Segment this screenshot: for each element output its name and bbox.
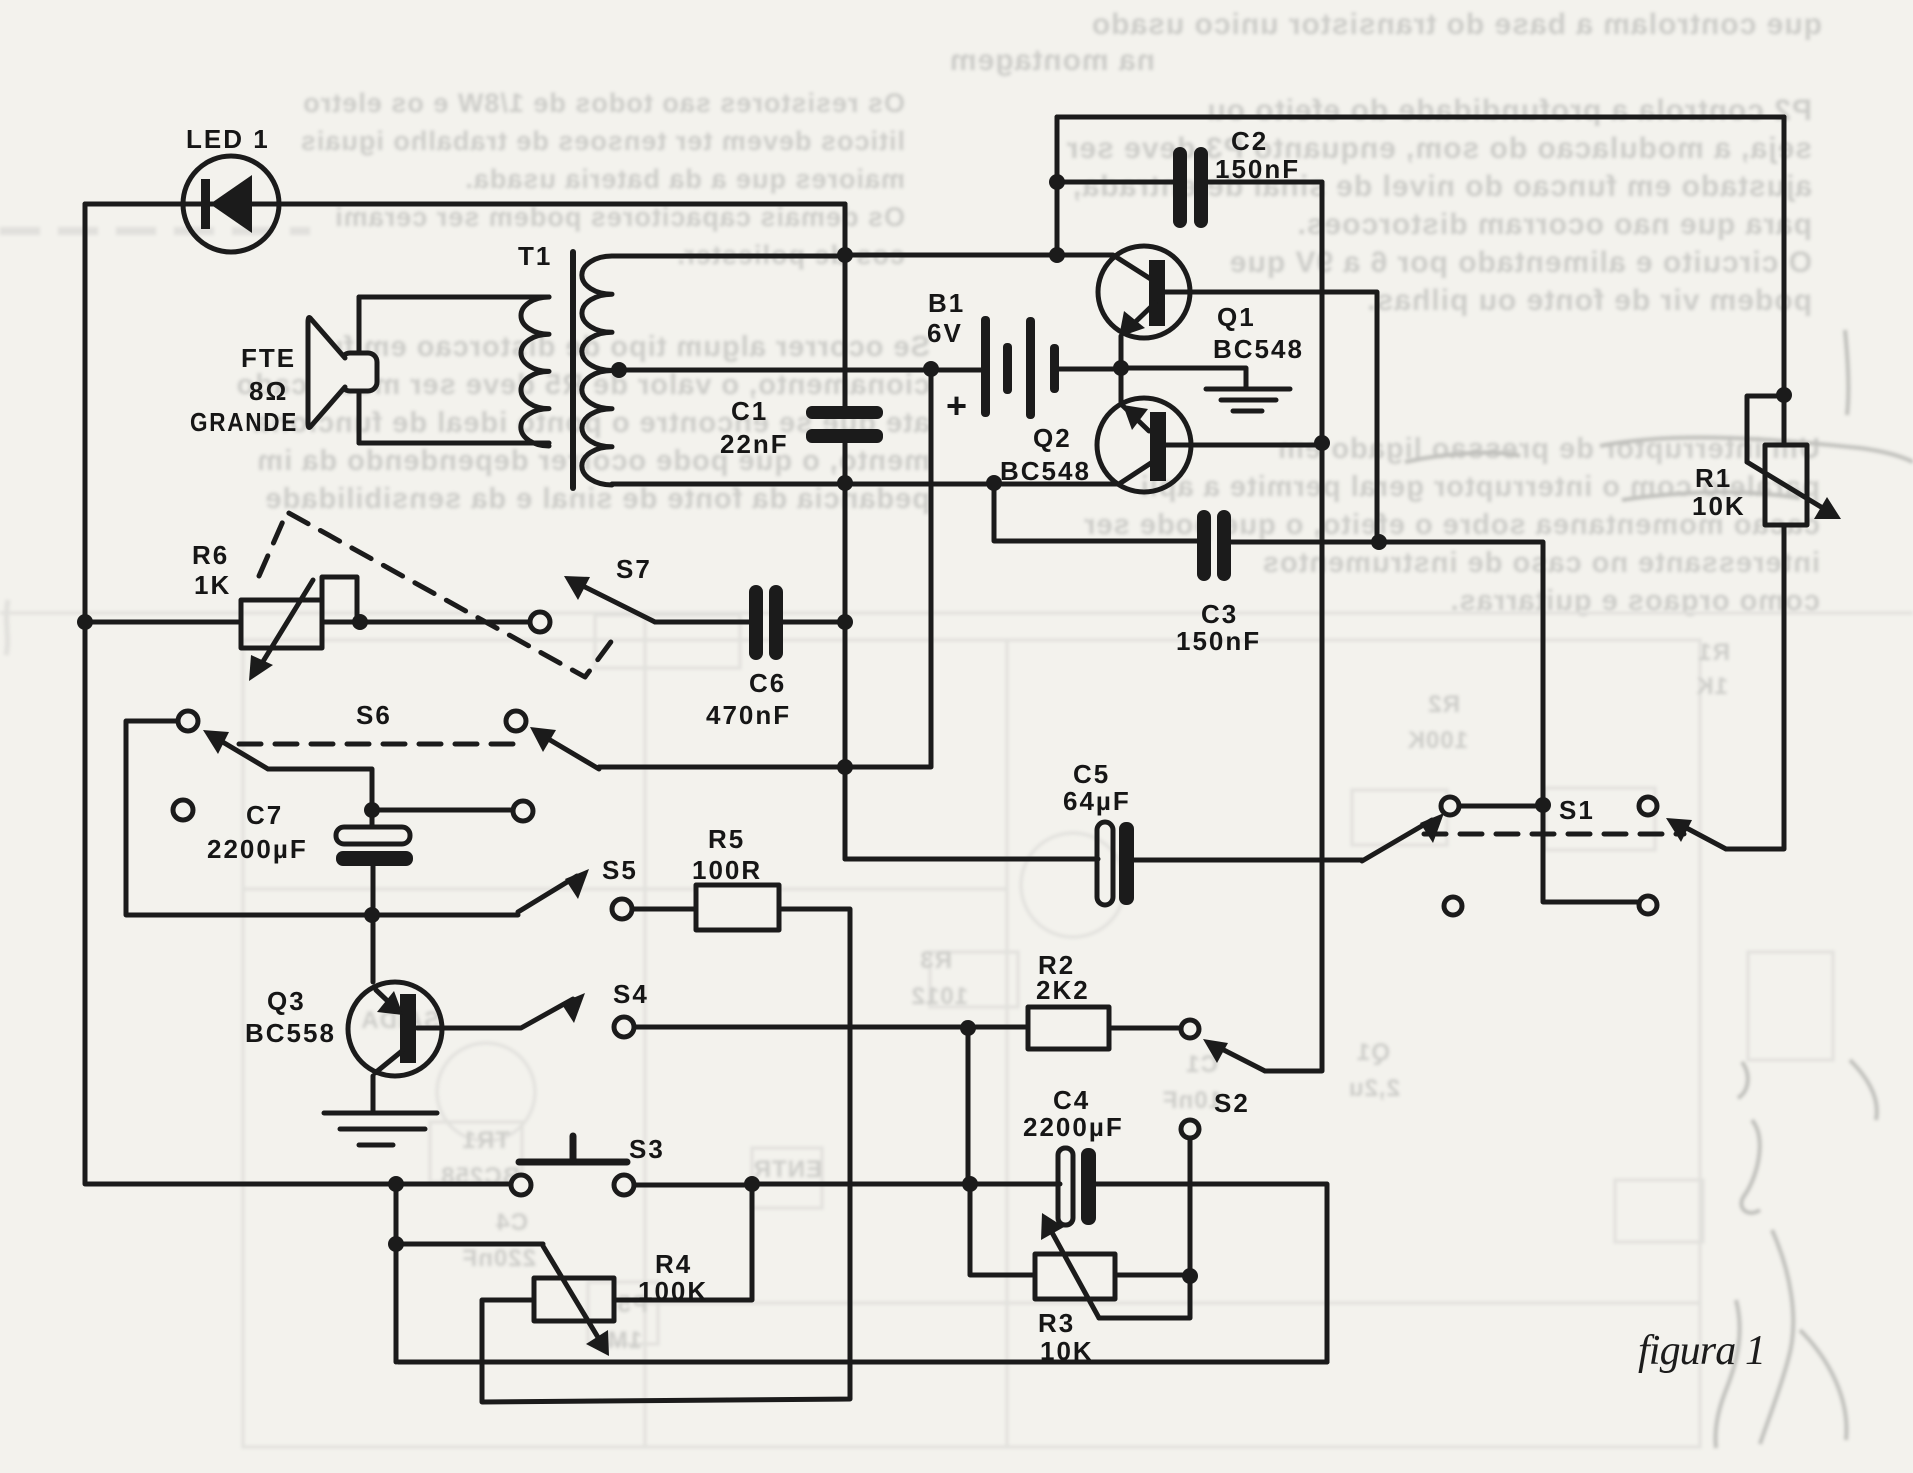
transistor Q1 base bar <box>1149 260 1165 326</box>
capacitor C3 plate B <box>1217 510 1231 581</box>
svg-text:BC548: BC548 <box>1000 456 1091 486</box>
svg-text:8Ω: 8Ω <box>249 376 288 406</box>
contact S6 right <box>506 711 526 731</box>
arrowhead R3 wiper <box>1041 1213 1064 1240</box>
svg-text:S7: S7 <box>616 554 652 584</box>
svg-text:ENTR: ENTR <box>753 1156 822 1183</box>
potentiometer R6 body <box>241 600 322 648</box>
svg-text:figura 1: figura 1 <box>1638 1328 1766 1374</box>
wire: R4 wiper row <box>396 1242 543 1247</box>
wire: right vertical to R1 <box>1782 117 1787 395</box>
arrowhead R1 wiper <box>1814 497 1841 519</box>
dashed coupling S6 <box>239 742 518 747</box>
wire: transformer secondary bottom lead / Q2 collector row <box>612 463 1151 484</box>
contact S2 bottom <box>1181 1120 1199 1138</box>
potentiometer R4 body <box>534 1278 614 1321</box>
wire: R1 bottom lead to S1 arm <box>1726 525 1784 849</box>
wire: C3 branch down <box>994 484 1197 541</box>
node C2 left <box>1049 174 1065 190</box>
svg-text:10nF: 10nF <box>1162 1087 1222 1114</box>
dashed coupling S7-R6 <box>259 512 613 677</box>
node battery left <box>923 361 939 377</box>
wire: S5 arm <box>518 876 577 912</box>
wire: R5 right lead down <box>482 909 850 1402</box>
node S3 left branch <box>388 1176 404 1192</box>
svg-text:10K: 10K <box>1692 491 1746 521</box>
wire: Q2 base lead <box>1166 443 1322 448</box>
svg-text:C7: C7 <box>246 800 283 830</box>
contact S5 <box>612 899 632 919</box>
transistor Q3 base bar <box>400 994 416 1063</box>
svg-text:1K: 1K <box>194 570 231 600</box>
svg-text:470nF: 470nF <box>706 700 791 730</box>
transistor Q1 circle <box>1098 246 1190 338</box>
potentiometer R1 body <box>1765 445 1807 525</box>
capacitor C6 plate A <box>749 585 763 660</box>
transistor Q3 collector lead <box>371 1076 376 1113</box>
svg-text:S2: S2 <box>1214 1088 1250 1118</box>
node Q1/Q2 emitters <box>1113 360 1129 376</box>
pushbutton S3 bar <box>519 1159 627 1166</box>
capacitor C4 plate solid <box>1081 1148 1096 1225</box>
contact S4 <box>614 1017 634 1037</box>
svg-text:que controlam a base do transi: que controlam a base do transistor unico… <box>1091 8 1822 41</box>
contact S1 lower-right <box>1639 896 1657 914</box>
svg-text:220nF: 220nF <box>462 1245 536 1272</box>
arrowhead Q1 emitter <box>1119 311 1145 337</box>
pushbutton S3 plunger <box>570 1136 577 1160</box>
wire: S5 contact to R5 <box>632 907 696 912</box>
resistor R2 body <box>1028 1007 1109 1049</box>
wire: transformer secondary top lead <box>612 254 845 259</box>
wire: node to Q1 collector <box>845 255 1157 283</box>
wire: C5 to S1 arm elbow <box>1133 858 1362 863</box>
node x845 C6 <box>837 614 853 630</box>
transistor Q3 circle <box>348 982 442 1076</box>
svg-text:LED 1: LED 1 <box>186 124 270 154</box>
contact S2 top <box>1181 1020 1199 1038</box>
resistor R5 body <box>696 885 779 930</box>
arrowhead S6 right arm <box>530 727 556 752</box>
svg-text:B1: B1 <box>928 288 965 318</box>
wire: central vertical x=845 upper <box>843 204 848 406</box>
ghost paragraph right-middle <box>1083 433 1820 617</box>
wire: S7 arm <box>577 583 655 622</box>
svg-text:Q3: Q3 <box>267 986 306 1016</box>
svg-text:R4: R4 <box>655 1249 692 1279</box>
wire: R3 right lead <box>1115 1273 1190 1278</box>
svg-text:pedancia da fonte de sinal e d: pedancia da fonte de sinal e da sensibil… <box>265 483 930 515</box>
svg-text:6V: 6V <box>927 318 963 348</box>
svg-text:FTE: FTE <box>241 343 296 373</box>
wire: S1 left arm <box>1362 820 1432 861</box>
capacitor C2 plate B <box>1194 147 1208 228</box>
capacitor C7 plate outline <box>336 827 410 844</box>
capacitor C5 plate outline <box>1097 822 1113 905</box>
wire: R2 branch down to R3 <box>966 1028 971 1184</box>
svg-text:2,2u: 2,2u <box>1348 1075 1400 1102</box>
wire: top-left LED row <box>85 202 845 207</box>
contact S1 lower-left <box>1444 897 1462 915</box>
speaker top lead <box>359 295 549 300</box>
ghost schematic lines (bleed-through of figure on reverse page) <box>0 613 1913 1447</box>
speaker cone <box>308 318 345 428</box>
arrowhead Q3 emitter <box>377 991 403 1015</box>
svg-text:T1: T1 <box>518 241 552 271</box>
dashed coupling S1 <box>1424 832 1684 837</box>
battery B1 plate short2 <box>1050 344 1059 393</box>
wire: S2 arm <box>1216 1046 1265 1071</box>
svg-text:maiores que a da bateria usada: maiores que a da bateria usada. <box>464 164 905 194</box>
capacitor C4 plate outline <box>1058 1148 1073 1225</box>
wire: R6 wiper arrow <box>259 580 313 668</box>
svg-text:S4: S4 <box>613 979 649 1009</box>
transistor Q2 circle <box>1097 398 1191 492</box>
node transformer tap <box>611 362 627 378</box>
svg-text:1M: 1M <box>607 1327 642 1354</box>
wire: S1 pole wire <box>1459 804 1543 809</box>
svg-text:podem vir de fonte ou pilhas.: podem vir de fonte ou pilhas. <box>1366 284 1812 317</box>
battery B1 plate long <box>981 316 990 417</box>
svg-text:100R: 100R <box>692 855 762 885</box>
svg-text:TR1: TR1 <box>462 1127 510 1154</box>
svg-text:150nF: 150nF <box>1215 154 1300 184</box>
svg-text:150nF: 150nF <box>1176 626 1261 656</box>
svg-text:100K: 100K <box>1407 727 1468 754</box>
pencil scribbles bottom right <box>1405 330 1913 1448</box>
contact S6 stub <box>513 801 533 821</box>
svg-text:R1: R1 <box>1695 463 1732 493</box>
node Q2 base / C2 column <box>1314 435 1330 451</box>
svg-text:P2 controla a profundidade do: P2 controla a profundidade do efeito ou <box>1206 94 1812 127</box>
svg-text:2200µF: 2200µF <box>207 834 308 864</box>
capacitor C6 plate B <box>769 585 783 660</box>
svg-text:R1: R1 <box>1697 639 1730 666</box>
wire: left vertical rail <box>83 204 88 1184</box>
node C3 branch <box>986 475 1002 491</box>
battery B1 plate long2 <box>1026 317 1035 419</box>
arrowhead S7 arm <box>564 576 590 600</box>
svg-text:C6: C6 <box>749 668 786 698</box>
wire: bottom bus <box>398 1360 1327 1365</box>
svg-text:na montagem: na montagem <box>949 44 1155 77</box>
arrowhead S6 left arm <box>203 730 229 754</box>
wire: S6 left arm elbow across <box>268 769 372 810</box>
svg-text:Se ocorrer algum tipo de disto: Se ocorrer algum tipo de distorcao em fu… <box>306 331 930 363</box>
contact S1 upper-left <box>1441 797 1459 815</box>
arrowhead R6 wiper <box>249 655 273 681</box>
arrowhead S4 arm <box>561 993 585 1023</box>
node x845/sec-top <box>837 247 853 263</box>
wire: S4 contact to R2 <box>634 1025 1028 1030</box>
wire: bottom-left row to S3 <box>86 1182 511 1187</box>
wire: long right vertical C2 to S2 arm <box>1265 182 1322 1071</box>
node dots <box>77 174 1792 1284</box>
wire: C4 right lead to bottom corner <box>1094 1184 1327 1362</box>
wire: S2 lower contact down <box>1099 1139 1190 1318</box>
wire: R6 row left <box>85 620 241 625</box>
ground near Q3 bar3 <box>359 1143 393 1148</box>
svg-text:liticos devem ter tensoes de t: liticos devem ter tensoes de trabalho ig… <box>300 126 905 156</box>
ghost text top-right (bleed-through, mirrored) <box>949 8 1822 77</box>
wire: R4 wiper arrow <box>543 1246 602 1344</box>
wire: battery row right <box>1058 367 1121 372</box>
wire: R1 wiper arrow <box>1747 462 1826 510</box>
capacitor C7 plate solid <box>336 851 413 866</box>
capacitor C1 plate A <box>806 406 883 419</box>
wire: S1 right arm <box>1679 824 1726 849</box>
svg-text:22nF: 22nF <box>720 429 789 459</box>
svg-text:R3: R3 <box>919 947 952 974</box>
transistor Q3 collector <box>375 1051 402 1073</box>
wire: S6 right arm <box>545 737 599 769</box>
wire: R6 wiper bump <box>322 577 357 622</box>
potentiometer R3 body <box>1035 1254 1115 1299</box>
LED1 circle <box>183 156 279 252</box>
transistor Q1 emitter lead <box>1119 336 1124 368</box>
svg-text:S3: S3 <box>629 1134 665 1164</box>
ground near Q1 bar3 <box>1233 409 1262 414</box>
transistor Q2 base bar <box>1150 412 1166 481</box>
svg-text:Q2: Q2 <box>1033 423 1072 453</box>
svg-text:Q1: Q1 <box>1217 302 1256 332</box>
node Q1 base / C3 row <box>1371 534 1387 550</box>
ghost labels of reverse figure (mirrored) <box>360 639 1730 1354</box>
capacitor C3 plate A <box>1197 510 1211 581</box>
transistor Q3 emitter <box>376 990 395 1008</box>
wire: to Q1 ground <box>1121 368 1246 389</box>
wire: R1 wiper jog <box>1747 396 1784 462</box>
wire: Q2 emitter lead <box>1121 368 1149 431</box>
svg-text:1012: 1012 <box>911 983 968 1010</box>
wire: S6 left contact to down-rail <box>126 721 518 915</box>
ghost band near left edge <box>0 231 310 655</box>
wire: R3 wiper arrow <box>1049 1227 1099 1318</box>
wire: R4 right lead up to S3 node <box>614 1184 752 1300</box>
svg-text:BC558: BC558 <box>245 1018 336 1048</box>
svg-text:Os resistores sao todos de 1/8: Os resistores sao todos de 1/8W e os ele… <box>302 88 905 118</box>
contact S1 upper-right <box>1639 797 1657 815</box>
svg-text:C1: C1 <box>731 396 768 426</box>
wire: C6 to x=845 <box>783 620 845 625</box>
svg-text:para que nao ocorram distorcoe: para que nao ocorram distorcoes. <box>1297 208 1812 241</box>
wire: S6 left arm <box>216 738 268 769</box>
svg-text:R5: R5 <box>708 824 745 854</box>
node R3 right / S2 <box>1182 1268 1198 1284</box>
svg-text:R6: R6 <box>192 540 229 570</box>
wire: top supply bus <box>1057 115 1784 120</box>
ground near Q3 bar1 <box>324 1111 437 1116</box>
node C7 top <box>364 802 380 818</box>
wire: R3 left lead <box>970 1184 1035 1275</box>
arrowhead S5 arm <box>565 869 589 899</box>
svg-text:O circuito e alimentado por 6: O circuito e alimentado por 6 a 9V que <box>1229 246 1812 279</box>
node R6 left rail <box>77 614 93 630</box>
contact S3 left <box>511 1175 531 1195</box>
svg-text:S5: S5 <box>602 855 638 885</box>
svg-text:1K: 1K <box>1695 673 1728 700</box>
arrowhead R4 wiper <box>586 1330 609 1356</box>
svg-text:C4: C4 <box>495 1209 528 1236</box>
node x845 S6 row <box>837 759 853 775</box>
ground near Q1 bar1 <box>1206 387 1290 392</box>
svg-text:2K2: 2K2 <box>1036 975 1090 1005</box>
wire: R6 row right to S7 <box>322 620 532 625</box>
capacitor C1 plate B <box>806 429 883 443</box>
svg-text:S1: S1 <box>1559 795 1595 825</box>
svg-text:R3: R3 <box>1038 1308 1075 1338</box>
svg-text:64µF: 64µF <box>1063 786 1131 816</box>
node S1 pole <box>1535 797 1551 813</box>
capacitor C2 plate A <box>1173 147 1187 228</box>
svg-text:C5: C5 <box>1073 759 1110 789</box>
speaker bottom lead <box>359 441 549 446</box>
LED1 cathode bar <box>201 179 210 229</box>
transistor Q1 emitter <box>1128 303 1155 329</box>
svg-text:C3: C3 <box>1201 599 1238 629</box>
wire: branch x=396 down to bottom bus <box>394 1184 399 1362</box>
wire: R2 to S2 <box>1109 1026 1181 1031</box>
wire: C7 top stub to contact <box>372 808 514 813</box>
wire: S3 node to C4 <box>752 1182 1060 1187</box>
svg-text:10K: 10K <box>1040 1336 1094 1366</box>
wire: C2 drop vertical <box>1055 117 1060 255</box>
svg-text:GRANDE: GRANDE <box>190 407 298 437</box>
svg-text:C2: C2 <box>1231 126 1268 156</box>
svg-text:+: + <box>946 385 969 426</box>
node S3 row / R3 column <box>962 1176 978 1192</box>
wire: C3 right lead to S1 column <box>1231 542 1639 902</box>
transformer T1 primary winding <box>521 297 549 446</box>
arrowhead S1 right arm <box>1666 818 1692 842</box>
svg-text:Q1: Q1 <box>1356 1039 1390 1066</box>
svg-text:C4: C4 <box>1053 1085 1090 1115</box>
contact S3 right <box>614 1175 634 1195</box>
svg-text:R2: R2 <box>1427 691 1460 718</box>
wire: battery row left <box>619 368 982 373</box>
contact S6 left <box>178 711 198 731</box>
wire: C7 top lead <box>370 810 375 827</box>
node x845 collector row <box>837 475 853 491</box>
node C7 bottom row <box>364 907 380 923</box>
speaker FTE box line <box>357 297 362 443</box>
wire: C2 left lead <box>1057 180 1173 185</box>
wire: C2 right lead <box>1207 180 1322 185</box>
wire: Q3 base to S4 arm <box>417 999 573 1028</box>
wire: R1 top lead <box>1782 395 1787 445</box>
LED1 triangle <box>210 175 252 233</box>
battery B1 plate short <box>1003 343 1012 394</box>
node R4 wiper row <box>388 1236 404 1252</box>
ground near Q3 bar2 <box>340 1127 425 1132</box>
wire: C5 row from x=845 <box>845 857 1098 862</box>
contact S6 float <box>173 800 193 820</box>
wire: Q1 base lead to right <box>1164 292 1377 542</box>
node S4 row / R2 <box>960 1020 976 1036</box>
node C2 drop <box>1049 247 1065 263</box>
speaker driver <box>341 353 377 391</box>
arrowhead S1 left arm <box>1420 813 1444 843</box>
svg-text:100K: 100K <box>638 1276 708 1306</box>
arrowhead Q2 emitter <box>1123 405 1148 430</box>
node S3 right / R4 <box>744 1176 760 1192</box>
transformer T1 core <box>570 252 576 488</box>
wire: C7 bottom lead to Q3 <box>371 866 376 982</box>
wire: S7 to C6 <box>655 620 749 625</box>
wire: S3 right to C4 <box>634 1183 752 1188</box>
wire: central vertical x=845 lower <box>843 443 848 859</box>
transformer T1 secondary winding <box>582 256 612 485</box>
ghost paragraph left-middle <box>236 331 930 515</box>
ghost paragraph right column <box>1066 94 1812 317</box>
svg-text:2200µF: 2200µF <box>1023 1112 1124 1142</box>
node R1 top <box>1776 387 1792 403</box>
wire: battery branch down x=933 and across to S6 arm <box>599 369 931 767</box>
ghost paragraph left-top <box>300 88 905 270</box>
svg-text:BC548: BC548 <box>1213 334 1304 364</box>
arrowhead S2 arm <box>1203 1039 1228 1063</box>
capacitor C5 plate solid <box>1119 822 1134 905</box>
ground near Q1 bar2 <box>1221 398 1276 403</box>
node R6 right <box>352 614 368 630</box>
contact S7 <box>530 612 550 632</box>
svg-text:S6: S6 <box>356 700 392 730</box>
